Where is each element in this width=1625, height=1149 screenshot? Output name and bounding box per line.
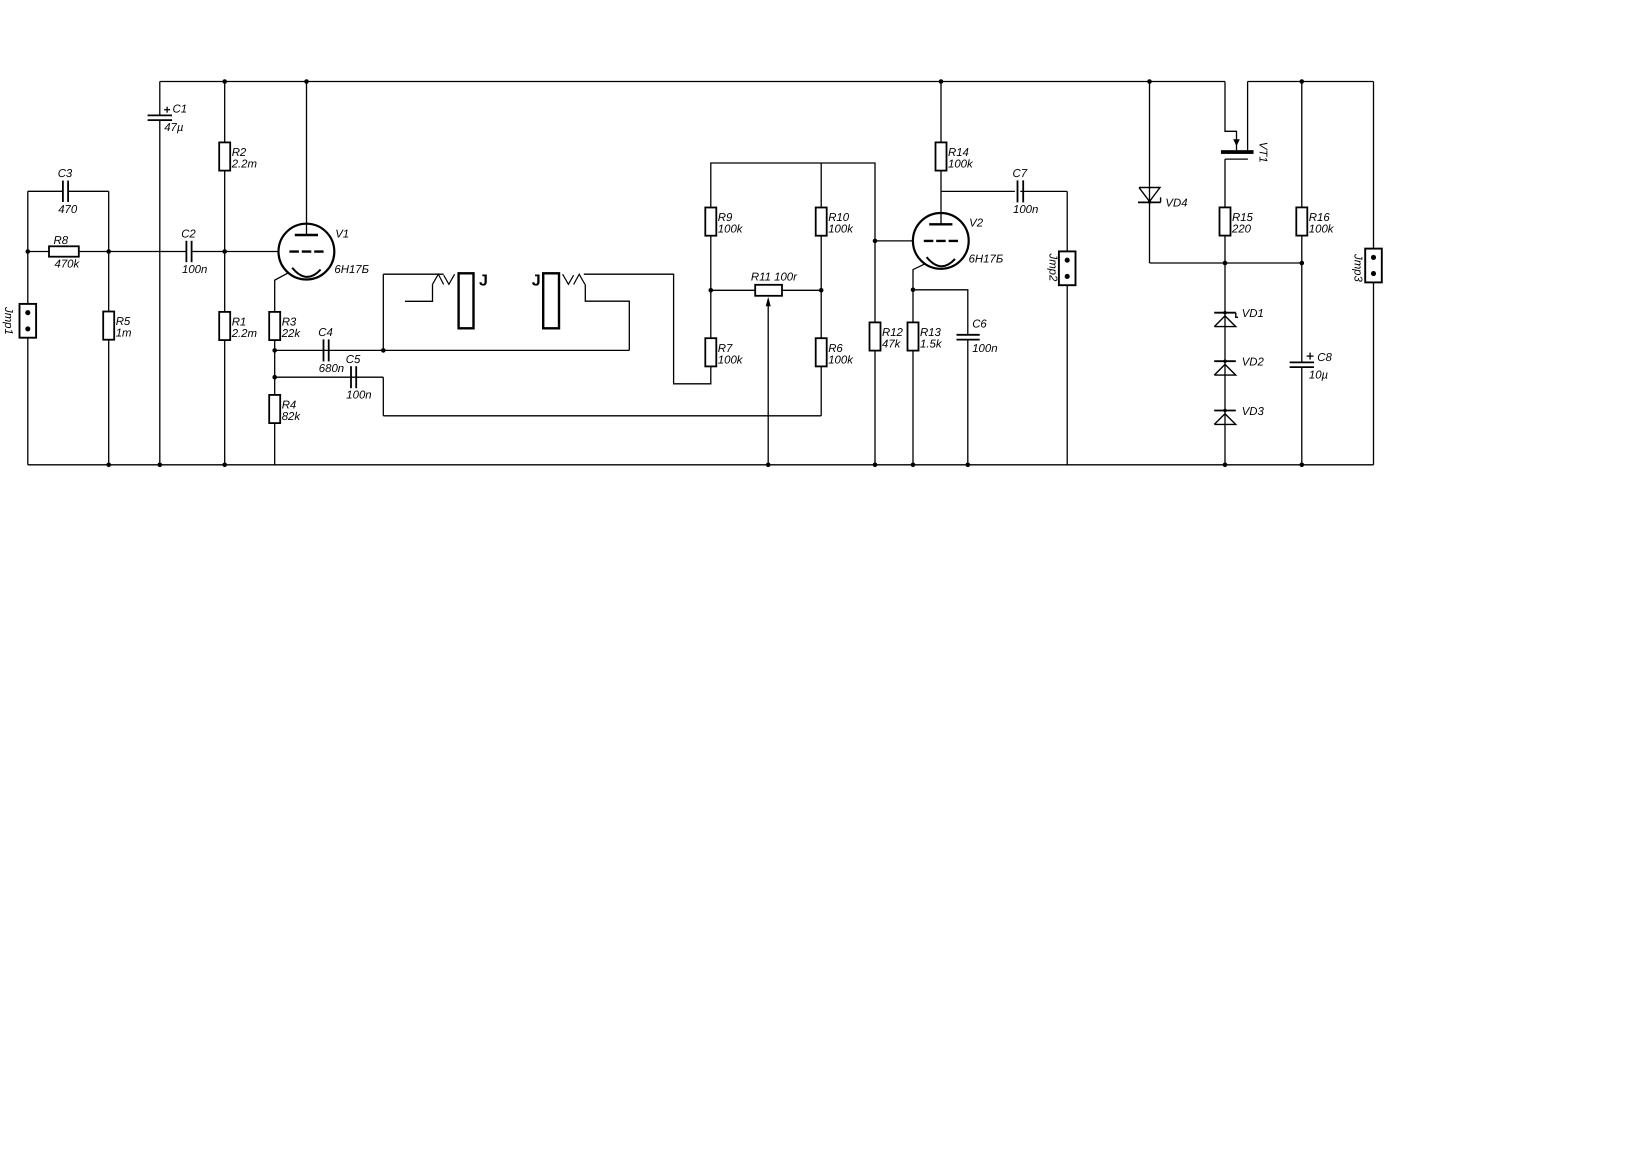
- svg-text:VD1: VD1: [1242, 308, 1264, 320]
- svg-text:V1: V1: [335, 229, 349, 241]
- svg-text:R8: R8: [54, 235, 69, 247]
- svg-text:2.2m: 2.2m: [231, 159, 257, 171]
- svg-text:C4: C4: [318, 327, 333, 339]
- svg-text:1.5k: 1.5k: [920, 339, 943, 351]
- svg-text:220: 220: [1231, 224, 1252, 236]
- svg-text:100n: 100n: [1013, 204, 1038, 216]
- svg-text:R7: R7: [718, 343, 733, 355]
- svg-text:R5: R5: [116, 316, 131, 328]
- svg-text:J: J: [532, 272, 541, 289]
- svg-text:R4: R4: [282, 400, 297, 412]
- svg-text:VD2: VD2: [1242, 357, 1265, 369]
- svg-text:2.2m: 2.2m: [231, 328, 257, 340]
- svg-text:C3: C3: [58, 168, 73, 180]
- svg-text:100n: 100n: [182, 264, 207, 276]
- svg-text:R11 100r: R11 100r: [751, 272, 798, 284]
- svg-text:VD4: VD4: [1165, 197, 1187, 209]
- svg-text:R13: R13: [920, 327, 942, 339]
- svg-text:R15: R15: [1232, 212, 1254, 224]
- svg-text:470: 470: [58, 204, 78, 216]
- svg-text:C5: C5: [346, 354, 361, 366]
- svg-text:680n: 680n: [319, 363, 344, 375]
- svg-text:R10: R10: [828, 212, 850, 224]
- svg-text:22k: 22k: [281, 328, 302, 340]
- svg-text:100k: 100k: [718, 224, 744, 236]
- svg-text:100k: 100k: [1309, 224, 1335, 236]
- svg-text:Jmp3: Jmp3: [1352, 253, 1364, 283]
- svg-text:C2: C2: [181, 228, 196, 240]
- svg-text:100k: 100k: [828, 224, 854, 236]
- svg-text:82k: 82k: [282, 411, 302, 423]
- svg-text:100n: 100n: [346, 390, 371, 402]
- svg-text:V2: V2: [969, 218, 984, 230]
- svg-text:470k: 470k: [55, 258, 81, 270]
- svg-text:10µ: 10µ: [1309, 369, 1329, 381]
- svg-text:Jmp1: Jmp1: [2, 306, 14, 335]
- svg-text:VT1: VT1: [1257, 142, 1269, 163]
- svg-text:C1: C1: [173, 104, 188, 116]
- svg-text:C6: C6: [972, 318, 987, 330]
- svg-text:R9: R9: [718, 212, 733, 224]
- svg-text:R16: R16: [1309, 212, 1331, 224]
- svg-text:100k: 100k: [718, 354, 744, 366]
- svg-text:C8: C8: [1317, 352, 1332, 364]
- svg-text:47k: 47k: [882, 339, 902, 351]
- svg-text:100n: 100n: [972, 343, 997, 355]
- svg-text:R1: R1: [232, 317, 247, 329]
- svg-text:VD3: VD3: [1242, 406, 1265, 418]
- svg-text:1m: 1m: [116, 328, 132, 340]
- svg-text:100k: 100k: [948, 159, 974, 171]
- svg-text:R12: R12: [882, 327, 904, 339]
- svg-text:R6: R6: [828, 343, 843, 355]
- svg-text:C7: C7: [1013, 168, 1028, 180]
- svg-text:6Н17Б: 6Н17Б: [969, 253, 1004, 265]
- svg-text:R2: R2: [232, 147, 247, 159]
- svg-text:Jmp2: Jmp2: [1047, 253, 1059, 283]
- svg-text:R3: R3: [282, 317, 297, 329]
- svg-text:J: J: [479, 272, 488, 289]
- svg-text:100k: 100k: [828, 354, 854, 366]
- svg-text:R14: R14: [948, 147, 969, 159]
- svg-text:6Н17Б: 6Н17Б: [334, 264, 369, 276]
- svg-text:47µ: 47µ: [164, 122, 184, 134]
